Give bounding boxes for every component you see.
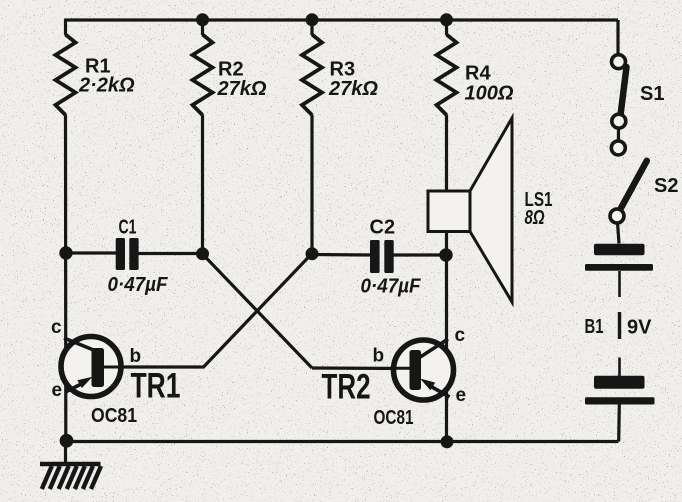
wire: S1 to S2 link — [617, 128, 620, 142]
wire: battery inter-cell upper segment — [618, 271, 621, 297]
wire: left rail (R1 branch / TR1 c-e rail) — [64, 19, 67, 36]
svg-text:e: e — [52, 380, 63, 401]
svg-text:C1: C1 — [119, 217, 137, 239]
capacitor C2 — [370, 240, 394, 273]
svg-text:B1: B1 — [585, 316, 604, 338]
node: left rail / C1 junction — [59, 246, 72, 259]
svg-text:S2: S2 — [654, 175, 678, 197]
wire: R4 / LS1 / TR2 rail — [445, 20, 448, 35]
svg-text:OC81: OC81 — [91, 405, 137, 427]
svg-text:e: e — [456, 385, 467, 406]
battery B1 — [585, 244, 655, 405]
node: R3 / C2 / TR1-base junction — [306, 247, 319, 260]
svg-text:C2: C2 — [370, 217, 396, 239]
wire: bottom rail — [66, 440, 619, 443]
svg-text:27kΩ: 27kΩ — [328, 78, 378, 100]
wire: battery inter-cell lower segment — [618, 358, 621, 377]
svg-text:2·2kΩ: 2·2kΩ — [78, 74, 135, 96]
resistor R2 — [193, 35, 213, 116]
wire: R3 branch to node at C2 left — [310, 20, 313, 35]
node: bottom rail / TR2 emitter junction — [441, 435, 454, 448]
switch S2 — [610, 141, 647, 223]
svg-text:c: c — [455, 325, 466, 346]
svg-text:TR2: TR2 — [322, 368, 371, 407]
wire: TR1 base horizontal — [103, 365, 205, 368]
node: top rail / R2 junction — [196, 13, 209, 26]
loudspeaker LS1 — [428, 118, 512, 302]
wire: S2 to battery — [618, 223, 620, 244]
transistor TR2 — [390, 339, 454, 400]
node: R4 / C2 / TR2-collector junction — [439, 248, 452, 261]
wire: C1 row left segment — [66, 251, 117, 254]
wire: cross-couple diagonal from node B1 to TR1 base — [204, 254, 313, 368]
node: R2 / C1 / TR2-base junction — [196, 247, 209, 260]
transistor TR1 — [61, 337, 122, 397]
svg-text:TR1: TR1 — [131, 367, 181, 406]
node: bottom rail / ground junction — [60, 434, 74, 448]
wire: C2 row right segment — [394, 253, 447, 256]
node: top rail / R4 junction — [440, 13, 453, 26]
wire: cross-couple diagonal from node B2 to TR2 base — [203, 254, 313, 368]
node: top rail / R3 junction — [306, 13, 319, 26]
svg-text:100Ω: 100Ω — [465, 83, 514, 105]
wire: C2 row left segment — [312, 253, 370, 257]
resistor R4 — [437, 35, 457, 116]
svg-text:0·47µF: 0·47µF — [361, 276, 422, 298]
wire: top-right drop to S1 — [616, 20, 619, 55]
wire: ground stub — [64, 442, 67, 463]
svg-text:27kΩ: 27kΩ — [217, 78, 267, 100]
wire: battery to bottom rail — [617, 405, 621, 442]
svg-text:OC81: OC81 — [374, 407, 414, 429]
svg-text:c: c — [51, 317, 62, 338]
wire: battery inter-cell middle segment — [618, 312, 621, 339]
resistor R3 — [302, 35, 322, 116]
wire: top rail — [66, 18, 619, 21]
switch S1 — [612, 55, 627, 129]
svg-text:b: b — [130, 346, 142, 367]
svg-text:R4: R4 — [465, 63, 491, 85]
ground — [40, 464, 101, 489]
svg-text:S1: S1 — [640, 83, 664, 105]
wire: R2 branch to node at C1 right — [201, 20, 204, 35]
svg-text:0·47µF: 0·47µF — [108, 274, 169, 296]
wire: TR2 base horizontal — [312, 366, 411, 370]
svg-text:8Ω: 8Ω — [525, 207, 545, 229]
svg-text:9V: 9V — [627, 317, 652, 339]
capacitor C1 — [116, 238, 139, 270]
wire: C1 row right segment — [139, 252, 203, 255]
svg-text:b: b — [373, 346, 385, 367]
resistor R1 — [56, 35, 76, 116]
